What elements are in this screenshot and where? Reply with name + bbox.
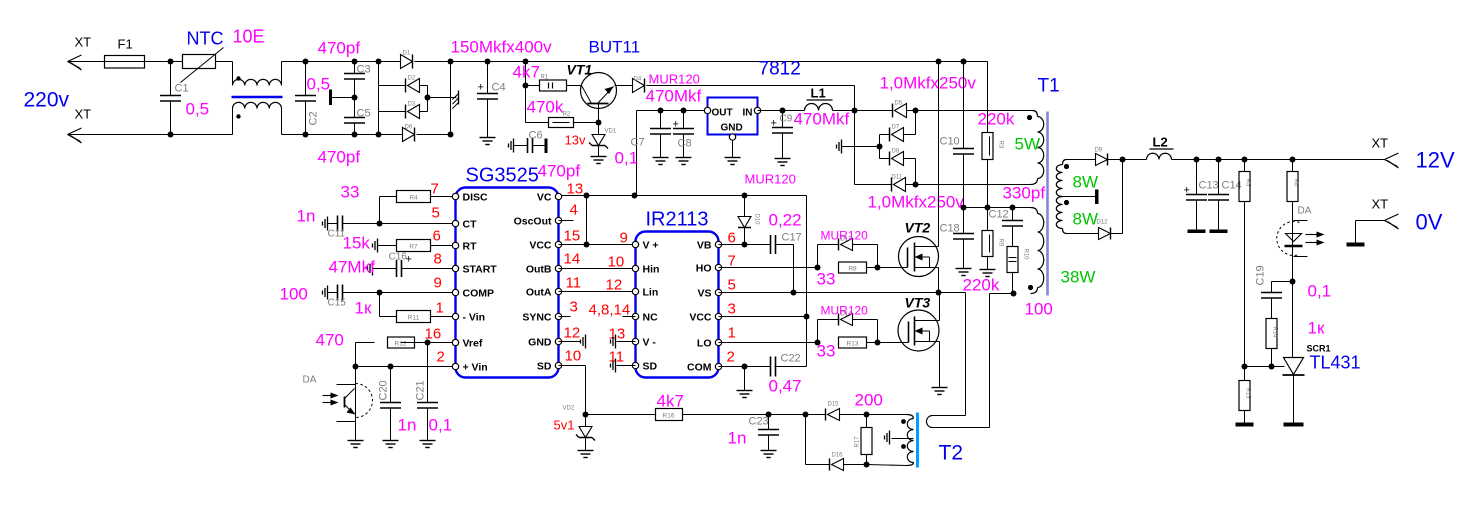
svg-text:C16: C16 [389,252,408,263]
svg-text:HO: HO [696,263,712,275]
svg-text:470: 470 [316,331,344,350]
svg-text:200: 200 [855,391,883,410]
node C19 junction [1272,279,1296,358]
svg-text:13: 13 [567,181,584,198]
svg-text:470pf: 470pf [318,148,361,167]
diode D3 [379,98,428,119]
svg-text:9: 9 [620,230,628,247]
svg-text:R15: R15 [1245,388,1251,400]
IC U3 IR2113 body [636,209,719,378]
svg-text:470k: 470k [527,98,564,117]
svg-text:220v: 220v [24,89,70,112]
svg-text:R17: R17 [855,436,861,448]
svg-text:MUR120: MUR120 [745,172,796,187]
svg-text:C6: C6 [529,130,543,142]
svg-text:7: 7 [728,253,736,270]
ground VT3 [932,388,948,395]
svg-text:SD: SD [537,361,552,373]
svg-text:1: 1 [436,300,444,317]
svg-text:L1: L1 [811,86,826,101]
capacitor C7 [615,108,672,168]
diode D4 MUR120 [633,72,855,93]
wire 7812 out row [637,111,705,195]
svg-text:R11: R11 [408,315,420,322]
wire COM row [719,364,748,370]
svg-text:100: 100 [280,285,308,304]
svg-text:D12: D12 [1097,220,1109,226]
node bridge left vertical [376,59,382,138]
capacitor C9 [758,108,850,159]
capacitor C20 1n [378,367,417,441]
svg-text:9: 9 [434,275,442,292]
capacitor C22 [745,353,807,396]
label T1 [1038,76,1060,97]
svg-text:CT: CT [463,219,478,231]
wire TL431 ref row [1242,364,1285,370]
svg-text:D3: D3 [408,102,416,108]
svg-text:D11: D11 [892,175,903,181]
svg-text:VCC: VCC [689,312,712,324]
label 1,0Mkfx250v bottom [868,193,965,212]
svg-text:Vref: Vref [463,338,483,350]
svg-text:150Mkfx400v: 150Mkfx400v [451,38,553,57]
svg-text:C4: C4 [492,82,506,94]
svg-text:D4: D4 [634,77,642,83]
svg-text:C22: C22 [781,353,801,365]
wire VC to VCC link [584,196,590,248]
svg-text:MUR120: MUR120 [821,304,869,318]
transformer T1 core [1046,112,1049,296]
capacitor C3 [318,39,371,101]
label 220v [24,89,70,112]
wire D5 junction to T1 top [916,110,1033,112]
ground C9 [775,159,791,166]
ground VD1 [591,157,607,164]
svg-text:0,1: 0,1 [429,416,453,435]
wire HO row [719,265,821,271]
ground bar TL431 [1284,423,1304,427]
svg-text:C21: C21 [415,380,427,400]
svg-text:15k: 15k [343,234,371,253]
svg-text:7812: 7812 [759,59,801,80]
node VT1 emitter junction [596,120,602,126]
wire VC supply rail [562,193,807,199]
svg-text:12: 12 [564,325,581,342]
choke core [232,96,283,99]
capacitor C16 47Mkf [329,252,453,278]
IR2113 right pin numbers [727,230,736,366]
svg-text:4,8,14: 4,8,14 [589,302,631,319]
svg-text:+: + [478,82,484,94]
mosfet VT2 [899,220,939,277]
svg-text:C17: C17 [782,232,802,244]
wire 0V to XT [1356,197,1443,243]
svg-text:XT: XT [75,107,92,122]
wire +Vin row [353,364,453,370]
svg-text:5v1: 5v1 [554,418,575,433]
wire 12V rail to XT [1372,136,1455,173]
svg-text:- Vin: - Vin [463,312,486,324]
wire C2 to C3 [306,62,355,135]
svg-text:T2: T2 [939,442,964,465]
svg-text:C19: C19 [1255,265,1267,285]
svg-text:C23: C23 [749,416,769,428]
ground bar R15 [1236,423,1254,427]
svg-text:R9: R9 [998,239,1004,247]
ground bar C13 [1188,230,1206,234]
IR2113 NC stub [623,316,636,318]
svg-text:6: 6 [728,230,736,247]
wire VS midpoint row [719,292,966,294]
svg-text:C1: C1 [175,83,189,95]
svg-text:0,1: 0,1 [615,149,639,168]
svg-text:VD2: VD2 [563,406,575,412]
svg-text:6: 6 [433,228,441,245]
svg-text:D2: D2 [408,76,416,82]
svg-text:IN: IN [743,108,753,119]
diode D5 [855,101,919,118]
optocoupler DA LED [1277,206,1325,282]
ground C4 [480,138,496,145]
diode D6 [403,125,451,142]
diode D8 [880,147,916,185]
wire VT3 drain to midpoint [939,293,941,321]
svg-text:C13: C13 [1199,180,1219,192]
svg-text:D5: D5 [895,101,903,107]
wire LO row [719,340,821,346]
svg-text:3: 3 [570,299,578,316]
label 150Mkfx400v [451,38,553,57]
svg-text:RT: RT [463,241,478,253]
resistor R11 1k [355,293,453,323]
svg-text:1n: 1n [398,416,417,435]
svg-text:R8: R8 [848,266,857,273]
svg-text:VT3: VT3 [905,295,931,311]
diode D16 branch [806,415,830,465]
ground C20 [383,441,399,448]
svg-text:4k7: 4k7 [657,392,684,411]
mosfet VT3 [898,295,940,352]
svg-text:VS: VS [697,288,711,300]
svg-text:D9: D9 [1095,148,1103,154]
node VD2 junction [583,412,589,418]
svg-text:R14: R14 [1272,327,1278,339]
earth clamp mid [837,140,883,154]
svg-text:2: 2 [727,349,735,366]
transformer T1 primary 5W winding [1015,111,1044,185]
svg-text:R12: R12 [395,341,407,348]
svg-text:GND: GND [721,123,743,134]
SG3525 left pin numbers [425,181,445,366]
diode D15 [826,402,870,421]
diode D13 MUR120 [818,229,878,268]
svg-text:0,5: 0,5 [186,100,210,119]
wire AC top into fuse [69,61,183,63]
resistor R5 [1239,157,1251,367]
diode D16 [830,453,870,471]
svg-text:0,22: 0,22 [769,211,802,230]
svg-text:10E: 10E [233,27,265,47]
svg-text:C15: C15 [328,298,347,309]
ground C21 [420,441,436,448]
capacitor C15 100 [280,285,453,309]
diode D1 [401,51,451,69]
svg-text:R7: R7 [409,244,418,251]
svg-text:SYNC: SYNC [522,312,552,324]
svg-text:V -: V - [643,337,657,349]
svg-text:1n: 1n [297,207,316,226]
SG3525 OscOut stub [559,220,574,222]
IR2113 left pin numbers [589,230,631,366]
ground bar C14 [1210,230,1228,234]
svg-text:13v: 13v [565,133,586,148]
capacitor C6 [509,130,548,154]
svg-text:0,5: 0,5 [307,75,331,94]
label 470pf C6 [538,162,581,181]
svg-text:220k: 220k [978,110,1015,129]
ground C23 [761,451,777,458]
IR2113 V- earth [611,335,636,349]
wire VT1 supply corner [852,86,858,185]
svg-text:D6: D6 [405,125,413,131]
svg-text:R5: R5 [1245,179,1251,187]
svg-text:R3: R3 [998,141,1004,149]
wire VT2 source to midpoint [936,268,942,296]
svg-text:SD: SD [643,361,658,373]
node bridge right vertical [448,59,454,138]
wire C3 to bridge [355,62,403,135]
svg-text:D8: D8 [892,149,900,155]
wire VCC pin row [719,316,807,318]
resistor R14 1k [1266,319,1325,370]
wire AC bottom [69,134,306,136]
regulator U2 7812 [704,59,800,141]
wire OutB to Hin [559,268,633,270]
svg-text:0,47: 0,47 [769,377,802,396]
diode D12 [1067,160,1123,240]
svg-text:5: 5 [432,205,440,222]
svg-text:C18: C18 [940,223,960,235]
inductor L2 [1120,135,1385,163]
transistor VT1 [567,62,633,123]
svg-text:XT: XT [1372,136,1389,151]
svg-text:VT1: VT1 [567,62,593,78]
svg-text:1: 1 [728,325,736,342]
svg-text:D7: D7 [892,125,900,131]
capacitor C2 [295,59,330,138]
label T2 [939,442,964,465]
diode D11 [855,175,919,192]
svg-text:10: 10 [565,348,582,365]
svg-text:R2: R2 [563,112,571,118]
wire VCC row to IR2113 [559,244,633,246]
ground COM [737,367,753,398]
capacitor C14 [1208,157,1242,230]
svg-text:V +: V + [643,240,659,252]
earth chassis hatch at bridge [453,91,459,109]
svg-text:15: 15 [564,228,581,245]
svg-text:OutB: OutB [526,264,552,276]
SG3525 right pins [514,192,562,373]
junction bridge mid to earth [425,95,457,101]
wire snubber rail [961,205,1031,211]
svg-text:VC: VC [537,192,552,204]
capacitor C5 [318,98,371,167]
node R1/R2 branch [523,59,529,123]
diode D9 [1067,148,1123,166]
inductor L1 [783,86,855,111]
svg-text:D10: D10 [754,214,760,226]
transformer T2 core [916,413,919,468]
diode D14 MUR120 [818,304,878,343]
transformer T2 secondary winding [867,415,914,466]
svg-text:470Mkf: 470Mkf [794,110,850,129]
svg-text:L2: L2 [1153,135,1168,150]
svg-text:OutA: OutA [526,287,552,299]
thermistor NTC [181,27,265,83]
svg-text:1n: 1n [728,429,747,448]
svg-text:1к: 1к [355,299,372,318]
svg-text:VB: VB [697,240,712,252]
svg-text:C10: C10 [940,136,960,148]
svg-text:D1: D1 [403,51,411,57]
svg-text:START: START [463,264,498,276]
svg-text:LO: LO [697,338,712,350]
svg-text:C20: C20 [378,380,390,400]
svg-text:VCC: VCC [529,240,552,252]
resistor R16 4k7 [586,392,769,421]
svg-text:10: 10 [608,254,625,271]
ground 7812 GND pin [725,141,741,165]
ground bar 0V [1347,243,1365,247]
svg-text:1,0Mkfx250v: 1,0Mkfx250v [868,193,965,212]
svg-text:14: 14 [564,251,581,268]
capacitor C11 1n [297,207,453,240]
svg-text:D15: D15 [828,402,840,408]
resistor R3 220k [978,62,1015,208]
svg-text:11: 11 [609,349,625,366]
node XT mains top [68,35,92,71]
SG3525 SYNC stub [559,316,571,318]
svg-text:4k7: 4k7 [513,63,540,82]
choke L windings [233,62,282,135]
wire midpoint node to T1 primary bottom [939,291,1017,297]
capacitor C19 [1255,265,1332,318]
resistor R15 [1239,367,1251,423]
wire OutA to Lin [559,291,633,293]
ground VD2 [578,451,594,458]
resistor R10 100 [1007,247,1053,319]
svg-text:VD1: VD1 [605,129,617,135]
resistor R17 200 [855,391,883,465]
svg-text:R10: R10 [1023,249,1029,261]
svg-text:C9: C9 [780,114,793,125]
svg-text:33: 33 [817,270,836,289]
ground C7 [653,158,669,165]
svg-text:SG3525: SG3525 [466,165,539,187]
zener VD1 13v [565,123,617,157]
svg-text:COMP: COMP [463,288,495,300]
T1 secondary center tap bar [1063,190,1099,205]
svg-text:3: 3 [728,301,736,318]
svg-text:7: 7 [431,181,439,198]
svg-text:C3: C3 [357,64,371,76]
svg-text:100: 100 [1025,300,1053,319]
wire VCC feed down [804,196,810,367]
wire choke to C2 top [282,61,306,63]
svg-text:DISC: DISC [463,192,489,204]
optocoupler DA phototransistor [303,367,373,441]
svg-text:0V: 0V [1416,210,1443,235]
wire midpoint to T2 primary [933,293,966,416]
svg-text:470pf: 470pf [318,39,361,58]
svg-text:C7: C7 [631,137,645,149]
label 1,0Mkfx250v top [880,74,977,93]
wire NTC to choke [216,62,233,86]
capacitor C12 330pf [989,184,1046,247]
svg-text:2: 2 [437,349,445,366]
svg-text:+ Vin: + Vin [463,362,488,374]
svg-text:NC: NC [643,312,659,324]
capacitor C23 1n [728,412,780,451]
svg-text:C2: C2 [308,111,320,125]
shunt regulator SCR1 TL431 [1283,344,1361,423]
svg-text:F1: F1 [118,37,133,52]
ground C8 [676,158,692,165]
svg-text:NTC: NTC [187,29,224,49]
capacitor C13 [1184,157,1219,230]
svg-text:470pf: 470pf [538,162,581,181]
resistor R7 15k [343,234,453,253]
svg-text:C5: C5 [357,108,371,120]
svg-text:R1: R1 [541,75,549,81]
svg-text:38W: 38W [1061,268,1096,287]
svg-text:1к: 1к [1308,319,1325,338]
svg-text:DA: DA [303,375,317,386]
resistor R9 220k [963,208,1004,295]
capacitor C4 [477,59,506,138]
svg-text:12: 12 [606,277,623,294]
transformer T1 secondary 8W upper [1056,160,1098,197]
svg-text:8W: 8W [1073,210,1099,229]
svg-text:VT2: VT2 [905,220,931,236]
svg-text:COM: COM [687,362,712,374]
T2 center tap earth [885,431,914,445]
svg-text:47Mkf: 47Mkf [329,258,376,277]
svg-text:OscOut: OscOut [514,216,552,228]
svg-text:33: 33 [817,342,836,361]
svg-text:OUT: OUT [712,108,733,119]
wire SD down to R16 [559,366,586,415]
capacitor C1 [160,59,209,138]
svg-text:GND: GND [528,337,552,349]
svg-text:220k: 220k [963,276,1000,295]
IR2113 right pins [687,240,722,374]
zener VD2 5v1 [554,406,596,451]
capacitor C17 [771,232,802,296]
svg-text:IR2113: IR2113 [646,209,709,231]
svg-text:5W: 5W [1015,135,1041,154]
IR2113 left pins [632,240,659,373]
SG3525 GND earth [559,335,586,349]
ground bar at C3/C5 midpoint [329,90,355,106]
svg-text:8W: 8W [1073,173,1099,192]
resistor R6 [1287,157,1299,220]
resistor R12 470 [316,331,453,367]
fuse F1 [105,37,145,69]
SG3525 right pin numbers [564,181,584,365]
diode D10 MUR120 [738,172,802,248]
